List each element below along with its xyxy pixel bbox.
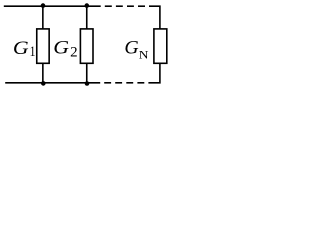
junction dot top node 2 (85, 3, 90, 8)
wire top rail right segment with corner to GN (149, 6, 160, 29)
wire bottom rail dashed segment (104, 82, 144, 84)
svg-text:1: 1 (30, 43, 36, 60)
svg-text:G: G (53, 38, 69, 58)
junction dot bottom node 2 (85, 81, 90, 86)
wire branch 2 bottom lead (86, 63, 88, 83)
conductance G2 (rectangle body) (80, 29, 93, 63)
junction dot bottom node 1 (41, 81, 46, 86)
svg-text:G: G (124, 38, 138, 58)
conductance G1 (rectangle body) (37, 29, 49, 63)
svg-text:G: G (13, 38, 29, 58)
label GN (124, 38, 148, 61)
wire branch 1 bottom lead (42, 63, 44, 83)
wire bottom rail solid segment (5, 82, 100, 84)
junction dot top node 1 (41, 3, 46, 8)
wire branch 2 top lead (86, 6, 88, 29)
svg-text:2: 2 (70, 44, 78, 60)
wire bottom rail right segment with corner to GN (148, 63, 160, 83)
conductance GN (rectangle body) (154, 29, 167, 63)
wire top rail dashed segment (105, 5, 145, 7)
label G1 (13, 38, 36, 59)
wire branch 1 top lead (42, 6, 44, 29)
svg-text:N: N (139, 48, 149, 61)
wire top rail solid segment (4, 5, 101, 7)
label G2 (53, 38, 77, 60)
